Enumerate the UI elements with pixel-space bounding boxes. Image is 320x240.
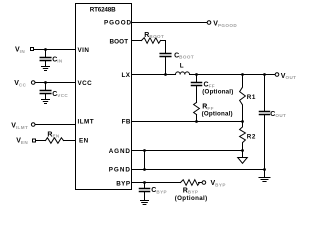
resistor R1 (240, 75, 246, 122)
resistor REN (46, 138, 64, 144)
svg-text:(Optional): (Optional) (175, 195, 208, 202)
node VILMT terminal circle (31, 123, 35, 127)
node VCC terminal circle (31, 81, 35, 85)
ground CVCC earth (42, 100, 50, 104)
svg-text:(Optional): (Optional) (202, 111, 233, 118)
capacitor CIN (45, 50, 47, 58)
node junction VCC-CVCC (44, 81, 47, 84)
node VBYP terminal circle (202, 181, 206, 185)
node junction COUT tap (263, 73, 266, 76)
inductor L (176, 72, 190, 75)
resistor RBYP optional (181, 180, 200, 186)
resistor RFF optional (194, 103, 200, 115)
wire COUT to ground (264, 115, 266, 178)
node VIN terminal square (31, 48, 34, 51)
svg-text:FB: FB (122, 119, 131, 126)
node junction R1 tap (241, 73, 244, 76)
node junction PGND vertical (143, 168, 146, 171)
wire CBOOT to LX rail (165, 57, 167, 75)
wire LX to inductor (132, 74, 176, 76)
node junction BYP-CBYP (143, 181, 146, 184)
ground COUT earth (259, 178, 270, 182)
wire RFF to FB line (196, 115, 198, 122)
resistor RBOOT (142, 38, 161, 44)
wire PGND line (132, 169, 265, 171)
node junction CBOOT-LX (164, 73, 167, 76)
svg-text:LX: LX (122, 72, 131, 79)
svg-text:BYP: BYP (116, 181, 130, 188)
wire VIN input (34, 49, 76, 51)
wire AGND line (132, 150, 243, 152)
capacitor CBOOT (160, 54, 171, 57)
wire BYP line (132, 182, 181, 184)
op-amp U1 IC body RT6248B (76, 4, 132, 190)
svg-text:(Optional): (Optional) (202, 88, 233, 95)
svg-text:R2: R2 (247, 134, 256, 141)
svg-text:PGND: PGND (109, 166, 131, 173)
wire RBOOT to CBOOT (161, 41, 166, 53)
node junction FB-R1-R2 (241, 120, 244, 123)
node junction AGND vertical tap (143, 149, 146, 152)
svg-text:BOOT: BOOT (110, 39, 129, 46)
svg-text:ILMT: ILMT (78, 118, 95, 125)
ground CBYP earth (141, 201, 149, 205)
capacitor CVCC (45, 83, 47, 91)
svg-text:EN: EN (79, 138, 89, 145)
capacitor CBYP (144, 183, 146, 189)
node VOUT terminal circle (275, 73, 279, 77)
wire EN input (36, 140, 46, 142)
node junction RFF-FB (195, 120, 198, 123)
wire VCC input (35, 82, 76, 84)
wire RBYP to VBYP (199, 182, 203, 184)
svg-text:R1: R1 (247, 94, 256, 101)
ground AGND triangle (238, 151, 248, 164)
svg-text:AGND: AGND (109, 148, 131, 155)
node junction VIN-CIN (44, 48, 47, 51)
node VPGOOD terminal circle (207, 21, 211, 25)
wire inductor to VOUT (190, 74, 276, 76)
wire FB line (132, 121, 243, 123)
ground CIN earth (42, 67, 50, 71)
node VEN terminal square (33, 139, 36, 142)
wire ILMT input (35, 124, 76, 126)
wire BOOT pin (132, 40, 142, 42)
svg-text:RT6248B: RT6248B (90, 7, 116, 14)
svg-text:PGOOD: PGOOD (104, 20, 132, 27)
node junction PGND-COUT (263, 168, 266, 171)
svg-text:VIN: VIN (78, 47, 90, 54)
wire AGND to PGND vertical (144, 151, 146, 170)
capacitor COUT (264, 75, 266, 111)
resistor R2 (240, 122, 246, 151)
wire PGOOD output (132, 22, 208, 24)
svg-text:L: L (180, 63, 184, 70)
node junction R2-AGND (241, 149, 244, 152)
capacitor CFF optional (196, 75, 198, 83)
svg-text:VCC: VCC (78, 80, 93, 87)
node junction CFF tap (195, 73, 198, 76)
wire REN to EN pin (64, 140, 76, 142)
